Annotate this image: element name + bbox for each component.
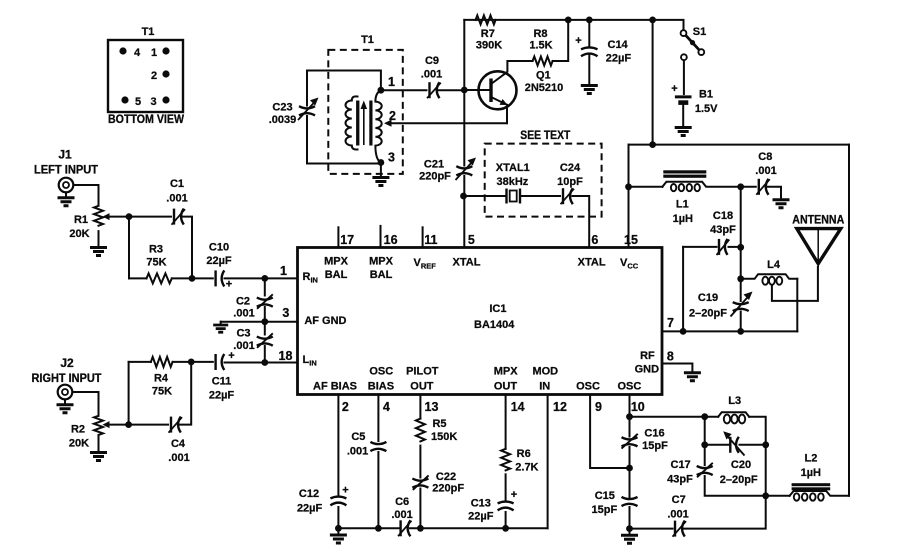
svg-text:J2: J2 [60,356,74,370]
IC left pin numbers [279,264,293,363]
svg-text:OUT: OUT [410,381,434,393]
wire J2 to R2 [73,392,99,416]
antenna symbol [797,229,841,267]
ground under C8 [773,200,790,208]
wire pin17 stub [337,227,339,247]
capacitor C13 (electrolytic) [498,502,514,511]
wire Q1 emitter down [506,105,508,123]
wire L4 tap to antenna [772,267,818,301]
svg-text:C24: C24 [560,162,581,174]
wire pin10 vertical with C16 and C15 [629,395,631,437]
svg-text:150K: 150K [431,431,457,443]
node L3 / C17 top [701,413,708,420]
node pin7 / C19 bottom [737,328,744,335]
wire pin3 AF GND row [221,321,298,323]
svg-text:C18: C18 [713,210,733,222]
inductor L1 core bars [663,170,706,178]
wire C10 to pin1 [225,277,298,279]
svg-text:.001: .001 [347,446,368,458]
svg-text:C23: C23 [272,102,292,114]
capacitor C14 (electrolytic) [581,47,598,56]
svg-text:PILOT: PILOT [406,366,439,378]
svg-text:MPX: MPX [324,256,349,268]
wire R3 row [129,277,147,279]
node R8 top [565,17,572,24]
transformer T1 dashed box [328,50,403,174]
svg-text:R1: R1 [74,214,88,226]
node rail pin4 [375,525,382,532]
IC inside labels top row [324,256,639,282]
inductor L2 loops [794,493,824,500]
node T1 pin3 [378,159,385,166]
wire R2 wiper [107,424,129,426]
svg-text:+: + [226,279,232,291]
svg-text:T1: T1 [361,34,374,46]
ground at pin8 RF GND [684,373,701,381]
svg-text:2: 2 [342,400,349,414]
svg-text:.001: .001 [166,193,187,205]
inductor L2 core bars [792,483,831,490]
svg-text:22µF: 22µF [468,511,494,523]
wire Q1 base [464,89,489,91]
wire C24 to pin6 [573,196,590,248]
svg-text:12: 12 [553,400,567,414]
node XTAL1 / pin5 [460,193,467,200]
svg-text:4: 4 [134,47,141,59]
IC left labels [303,271,347,368]
svg-text:2: 2 [389,109,396,123]
svg-text:OSC: OSC [617,381,641,393]
capacitor C1 [172,209,186,225]
node L2 left [762,492,769,499]
svg-text:B1: B1 [699,89,713,101]
resistor R7 [476,15,496,24]
IC bottom row labels [313,366,641,393]
capacitor C4 [169,417,183,433]
wire pin11 stub [422,227,424,247]
svg-text:C6: C6 [395,496,409,508]
svg-text:C3: C3 [236,328,250,340]
node rail pin2 [335,525,342,532]
resistor R3 [147,273,172,283]
node R3 / C1 [189,275,196,282]
svg-text:R5: R5 [432,418,446,430]
ground at AF bottom rail [330,535,347,543]
wire R2 to ground [98,436,100,452]
wire R1 to ground [98,231,100,246]
wire osc ground stub [629,529,631,534]
svg-text:C19: C19 [698,292,718,304]
svg-text:1.5K: 1.5K [529,40,552,52]
battery B1 [675,97,692,103]
svg-text:4: 4 [383,400,390,414]
node C18 / L4 [737,244,744,251]
svg-text:8: 8 [667,350,674,364]
wire C17 vertical [704,417,706,465]
svg-text:22µF: 22µF [209,390,235,402]
wire second supply rail [629,144,850,146]
ground at osc C15 [621,535,638,543]
node C20 right [762,441,769,448]
wire L3 right [749,417,766,496]
wire pin16 stub [380,226,382,248]
node rail pin14 [502,525,509,532]
wire L2 row [766,495,790,497]
svg-text:C8: C8 [758,151,772,163]
svg-text:BOTTOM VIEW: BOTTOM VIEW [108,112,185,126]
svg-text:13: 13 [425,400,439,414]
wire pin12 vertical [547,395,549,529]
svg-text:9: 9 [595,400,602,414]
wire B1 to ground [682,104,684,127]
wire AF GND stub down [220,322,222,324]
svg-text:MPX: MPX [494,366,519,378]
svg-text:GND: GND [635,364,660,376]
svg-text:20K: 20K [69,228,89,240]
svg-text:R6: R6 [517,448,531,460]
crystal XTAL1 [507,189,521,204]
capacitor C23 (trimmer style) [298,98,319,121]
IC centre labels [474,303,515,331]
svg-text:R4: R4 [154,373,169,385]
svg-text:L3: L3 [728,395,741,407]
wire C18 node to L4 with C19 [740,247,742,278]
svg-text:BAL: BAL [370,269,393,281]
svg-text:43pF: 43pF [710,224,736,236]
svg-text:11: 11 [424,233,437,247]
svg-text:.001: .001 [421,69,442,81]
wire J1 to R1 [74,185,99,206]
transformer T1 pin2 arrow [384,120,392,127]
capacitor C3 [257,333,273,348]
capacitor C22 [412,475,428,490]
capacitor C10 (electrolytic) [216,270,225,286]
capacitor C24 [561,188,575,204]
T1 transformer pin numbers [388,75,396,165]
svg-text:75K: 75K [146,257,166,269]
svg-text:2.7K: 2.7K [515,462,538,474]
inductor L3 loops [724,415,745,424]
wire C23 branch [306,71,308,106]
svg-text:2N5210: 2N5210 [525,82,564,94]
svg-text:C11: C11 [212,376,232,388]
trimmer capacitor C20 [723,431,744,455]
IC bottom pin numbers [342,400,645,414]
ground under J2 [57,405,74,413]
wire L1 node down to C18 [740,187,742,248]
svg-text:C9: C9 [425,55,439,67]
svg-text:2–20pF: 2–20pF [720,474,758,486]
svg-text:16: 16 [384,233,398,247]
wire Q1 collector to R8 [507,61,532,71]
capacitor C12 (electrolytic) [330,497,346,506]
svg-text:MPX: MPX [369,256,394,268]
svg-text:R2: R2 [71,424,85,436]
svg-text:C10: C10 [209,242,229,254]
ground under R2 [90,453,107,461]
IC top pin numbers [340,233,638,247]
svg-text:15pF: 15pF [592,504,618,516]
node pin7 / C18 vert [680,328,687,335]
transformer T1 primary winding (left) [345,96,357,149]
svg-text:3: 3 [282,306,289,320]
capacitor C17 [697,463,713,478]
svg-text:220pF: 220pF [419,171,451,183]
node T1 pin1 [378,87,385,94]
svg-text:1: 1 [388,75,395,89]
svg-text:C14: C14 [608,39,629,51]
svg-text:Q1: Q1 [536,70,551,82]
svg-text:10: 10 [631,400,645,414]
node C20 left [701,441,708,448]
svg-text:LEFT INPUT: LEFT INPUT [34,163,99,177]
wire pin4 vertical with C5 [377,395,379,442]
svg-text:.001: .001 [755,165,776,177]
wire C8 branch [741,186,756,188]
svg-text:C22: C22 [436,471,456,483]
svg-text:14: 14 [511,400,525,414]
wire T1 pin1 to C9 [381,89,427,91]
transistor Q1 [479,71,517,109]
svg-text:10pF: 10pF [557,176,583,188]
svg-text:+: + [342,485,348,497]
svg-text:C13: C13 [471,498,491,510]
svg-text:C20: C20 [731,459,751,471]
node R2 wiper [125,421,132,428]
node pin18 / C11 [261,359,268,366]
svg-text:XTAL: XTAL [578,257,606,269]
svg-text:3: 3 [150,96,156,108]
svg-text:BIAS: BIAS [368,381,394,393]
svg-text:22µF: 22µF [297,503,323,515]
ground at AF GND pin3 [213,325,228,332]
svg-text:OSC: OSC [576,381,600,393]
svg-text:2–20pF: 2–20pF [689,308,727,320]
svg-text:L4: L4 [767,259,781,271]
wire right edge vertical [848,145,850,496]
svg-text:6: 6 [591,233,598,247]
wire L4 hump [741,274,798,279]
potentiometer R2 [94,416,110,435]
inductor L4 loops [762,277,782,285]
capacitor C6 [398,520,412,536]
svg-text:390K: 390K [476,40,502,52]
svg-text:+: + [511,489,517,501]
wire pin14 vertical with R6 and C13 [505,395,507,449]
node supply corner [649,141,656,148]
svg-text:T1: T1 [142,26,155,38]
svg-text:IN: IN [539,381,550,393]
op-amp/IC U1 BA1404 box [298,248,663,395]
ground under R1 [90,248,107,256]
svg-text:J1: J1 [58,148,72,162]
capacitor C21 (trimmer style) [456,158,477,181]
svg-text:.001: .001 [168,452,189,464]
trimmer capacitor C19 [731,292,753,317]
wire L3 hump [718,412,749,417]
svg-text:C16: C16 [644,428,664,440]
svg-text:.0039: .0039 [269,114,297,126]
resistor R4 [151,357,173,367]
svg-text:17: 17 [340,233,354,247]
svg-text:RF: RF [640,350,655,362]
potentiometer R1 [94,206,110,226]
svg-text:C15: C15 [595,490,615,502]
svg-text:5: 5 [468,233,475,247]
svg-text:3: 3 [388,151,395,165]
svg-text:1µH: 1µH [801,467,821,479]
node L3 left top [626,413,633,420]
wire C7 row [630,528,673,530]
wire T1 top [307,71,381,91]
wire C18 left vertical [682,247,684,332]
node pin9 / C16 [626,465,633,472]
inductor L1 loops [671,184,700,191]
svg-text:L2: L2 [804,453,817,465]
svg-text:22µF: 22µF [606,53,632,65]
connector J1 phone jack [59,178,74,193]
svg-text:.001: .001 [391,509,412,521]
wire XTAL1 node to crystal [464,195,505,197]
wire C4 branch [129,424,168,426]
capacitor C5 [370,442,386,451]
svg-text:OSC: OSC [369,366,393,378]
wire R1 wiper [107,216,129,218]
wire wiper node up to R4 [128,362,130,425]
capacitor C18 [717,239,730,255]
node R1 wiper [126,213,133,220]
svg-text:1.5V: 1.5V [695,103,718,115]
svg-text:C4: C4 [171,438,186,450]
IC right labels RF GND [635,350,660,376]
node L4 left [737,275,744,282]
wire C14 branch [588,20,590,48]
svg-text:C1: C1 [170,178,184,190]
svg-text:+: + [671,83,677,95]
svg-text:IC1: IC1 [489,303,506,315]
wire J2 sleeve to ground [64,399,66,403]
transformer T1 core bars [356,101,359,146]
svg-text:MOD: MOD [532,366,558,378]
wire R4 node to C11 [191,361,213,363]
svg-text:.001: .001 [667,509,688,521]
svg-text:15: 15 [624,233,638,247]
wire pin18 row [265,362,298,364]
node Q1 base / C9 [461,87,468,94]
svg-text:L1: L1 [676,199,689,211]
svg-text:+: + [228,350,234,362]
wire R3 node to C10 [192,277,213,279]
node rail pin13 [417,525,424,532]
svg-text:XTAL1: XTAL1 [496,162,530,174]
resistor R5 [416,419,425,442]
node C14 top [586,17,593,24]
svg-text:38kHz: 38kHz [497,176,529,188]
wire supply vertical down [652,20,654,145]
svg-text:75K: 75K [152,386,172,398]
wire S1 to B1 [683,60,685,94]
wire R4 row [129,361,151,363]
svg-text:18: 18 [279,349,293,363]
svg-text:220pF: 220pF [432,483,464,495]
svg-text:+: + [575,35,581,47]
svg-text:XTAL: XTAL [453,257,481,269]
ground under C14 [581,86,598,94]
wire pin13 vertical with R5 and C22 [419,395,421,419]
svg-text:R8: R8 [533,28,547,40]
svg-text:C21: C21 [424,159,444,171]
wire C2/C3 chain vertical [264,278,266,295]
svg-text:R3: R3 [149,244,163,256]
svg-text:BA1404: BA1404 [474,319,515,331]
wire C20 row [705,444,730,446]
svg-text:RIGHT INPUT: RIGHT INPUT [32,371,103,385]
svg-text:C7: C7 [672,494,686,506]
T1 package pin dots [119,47,169,103]
capacitor C11 (electrolytic) [216,354,225,370]
svg-text:AF BIAS: AF BIAS [313,381,357,393]
node L1 left [625,183,632,190]
svg-text:15pF: 15pF [642,440,668,452]
svg-text:.001: .001 [233,340,254,352]
capacitor C15 [622,497,638,506]
svg-text:22µF: 22µF [206,255,232,267]
wire ground rail with C6 [338,527,398,529]
node S1 corner [649,17,656,24]
wire pin8 RF GND [662,364,692,372]
wire oscillator vertical (R7 left / C9 / C21 / pin5) [463,20,465,166]
transformer T1 core arrow [363,107,365,145]
wire pin10 to L3 [630,416,719,418]
svg-text:S1: S1 [693,26,706,38]
T1 package pin numbers [134,47,157,108]
svg-text:1µH: 1µH [673,213,693,225]
node pin1 / C10 [261,275,268,282]
transformer T1 package bottom view outline [108,40,183,112]
wire rail ground stub [337,528,339,534]
svg-text:5: 5 [135,96,141,108]
wire wiper node down [128,217,130,279]
wire J1 sleeve to ground [65,192,67,196]
capacitor C16 [622,434,638,449]
svg-text:AF GND: AF GND [304,315,346,327]
wire pin9 vertical [590,395,629,469]
svg-text:7: 7 [667,316,674,330]
svg-text:1: 1 [151,47,157,59]
capacitor C2 [257,294,273,309]
ground under J1 [58,198,75,206]
wire pin2 vertical with C12 [337,395,339,497]
wire C1 branch [129,216,171,218]
ground under B1 [675,128,692,136]
connector J2 phone jack [58,385,73,400]
wire L1 row [629,186,663,188]
wire C18 row [683,246,716,248]
svg-text:R7: R7 [481,28,495,40]
svg-text:ANTENNA: ANTENNA [792,213,844,227]
wire top supply rail [464,19,652,21]
capacitor C7 [673,521,687,537]
svg-text:20K: 20K [69,438,89,450]
ground under T1 pin3 [372,178,389,186]
wire pin7 row [662,330,797,332]
capacitor C8 [756,179,770,195]
svg-text:C2: C2 [236,296,250,308]
wire T1 pin3 to ground [380,163,382,177]
wire C11 to pin18 node [225,362,265,364]
node L1 right / C8 [737,183,744,190]
capacitor C9 [427,82,441,98]
